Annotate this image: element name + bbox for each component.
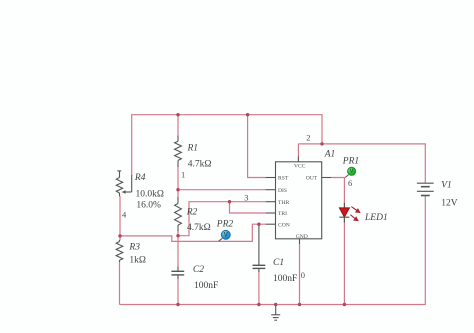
svg-text:12V: 12V	[441, 199, 458, 209]
svg-text:100nF: 100nF	[273, 274, 297, 284]
svg-text:LED1: LED1	[364, 213, 388, 223]
svg-text:PR2: PR2	[216, 220, 234, 230]
svg-text:10.0kΩ: 10.0kΩ	[136, 190, 164, 200]
svg-text:R3: R3	[128, 243, 140, 253]
svg-text:16.0%: 16.0%	[136, 200, 161, 210]
svg-text:GND: GND	[296, 234, 308, 240]
svg-text:C1: C1	[273, 258, 284, 268]
svg-text:2: 2	[306, 133, 310, 143]
svg-text:4.7kΩ: 4.7kΩ	[187, 223, 211, 233]
svg-text:C2: C2	[193, 265, 204, 275]
svg-text:VCC: VCC	[294, 163, 306, 169]
svg-text:1: 1	[181, 170, 185, 180]
svg-text:3: 3	[244, 192, 248, 202]
svg-text:TRI: TRI	[278, 211, 287, 217]
svg-text:R4: R4	[134, 173, 146, 183]
svg-text:RST: RST	[278, 176, 289, 182]
svg-text:1kΩ: 1kΩ	[129, 256, 146, 266]
svg-text:V1: V1	[441, 181, 452, 191]
svg-text:6: 6	[348, 178, 352, 188]
svg-text:PR1: PR1	[342, 157, 359, 167]
svg-text:100nF: 100nF	[194, 281, 218, 291]
svg-text:A1: A1	[324, 150, 336, 160]
svg-text:CON: CON	[278, 222, 290, 228]
svg-text:THR: THR	[278, 200, 289, 206]
svg-text:R2: R2	[186, 208, 198, 218]
svg-text:DIS: DIS	[278, 188, 287, 194]
svg-text:V: V	[350, 169, 354, 175]
svg-text:0: 0	[301, 270, 305, 280]
svg-text:OUT: OUT	[306, 176, 318, 182]
svg-text:4: 4	[122, 209, 127, 219]
svg-text:4.7kΩ: 4.7kΩ	[188, 160, 212, 170]
svg-text:R1: R1	[187, 144, 199, 154]
